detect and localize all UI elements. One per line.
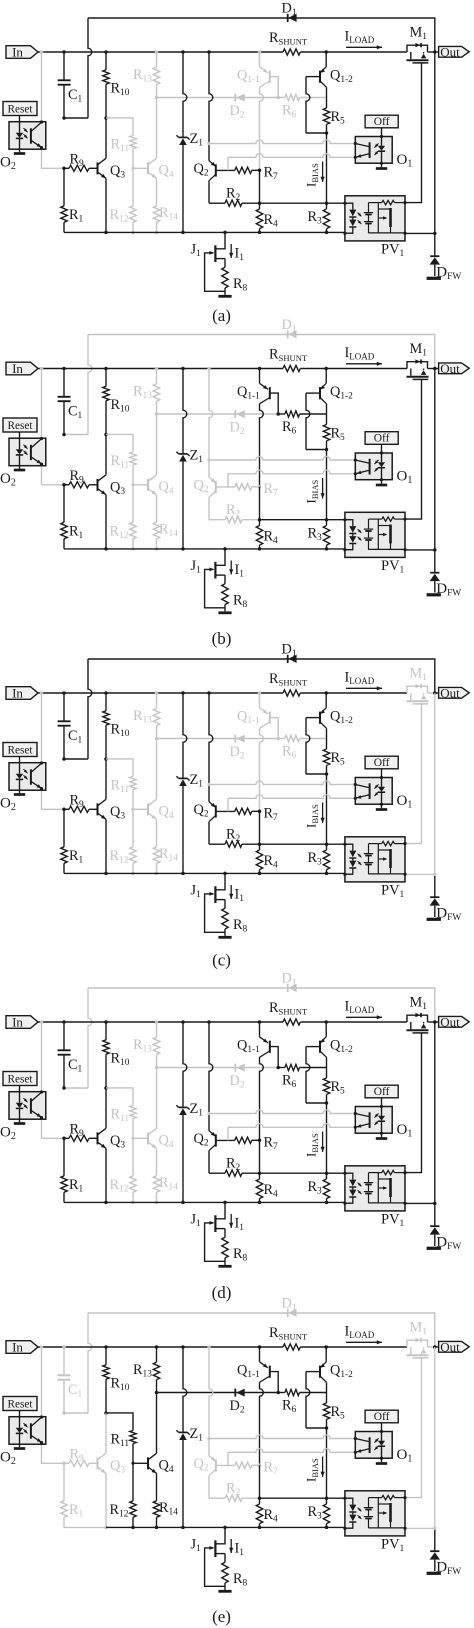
wire bootstrap vertical x88 bbox=[88, 18, 92, 118]
wire O1 emitter line bbox=[228, 1449, 355, 1453]
ground D_FW bbox=[427, 1247, 441, 1250]
resistor R13 bbox=[155, 367, 159, 371]
svg-text:R1: R1 bbox=[69, 524, 84, 542]
wire bias column bbox=[326, 133, 328, 203]
svg-text:R7: R7 bbox=[264, 1460, 279, 1478]
resistor R8 bbox=[224, 1229, 226, 1238]
resistor R1 bbox=[63, 1463, 65, 1501]
svg-text:R12: R12 bbox=[110, 1177, 129, 1195]
current arrow I1 bbox=[230, 885, 232, 899]
resistor R2 bbox=[208, 497, 210, 520]
sub-figure (b) bbox=[0, 317, 469, 648]
current arrow I_LOAD bbox=[346, 363, 382, 365]
wire bias crossbar left bbox=[157, 413, 279, 415]
svg-text:O1: O1 bbox=[397, 793, 413, 811]
resistor R1 bbox=[63, 485, 65, 523]
diode D2 bbox=[234, 410, 236, 418]
svg-text:Q4: Q4 bbox=[159, 804, 174, 822]
svg-text:Q1-2: Q1-2 bbox=[330, 1363, 353, 1381]
wire O1 emitter line bbox=[228, 470, 355, 474]
current arrow I_BIAS bbox=[304, 163, 321, 187]
svg-text:Out: Out bbox=[440, 685, 460, 700]
resistor R7 bbox=[235, 484, 252, 490]
wire Out column bbox=[434, 1022, 436, 1203]
opto-coupler O2 bbox=[9, 122, 46, 150]
wire top rail bbox=[88, 18, 435, 52]
transistor Q3 bbox=[97, 1457, 99, 1469]
node Q1-2 base tie bbox=[325, 772, 329, 776]
resistor R3 bbox=[326, 520, 328, 526]
svg-text:R9: R9 bbox=[70, 793, 85, 811]
resistor R10 bbox=[104, 691, 108, 695]
svg-text:D1: D1 bbox=[282, 971, 297, 989]
svg-text:Out: Out bbox=[440, 44, 460, 59]
svg-text:R9: R9 bbox=[70, 152, 85, 170]
svg-text:R5: R5 bbox=[331, 1079, 346, 1097]
svg-text:R4: R4 bbox=[264, 529, 279, 547]
node In terminal tag bbox=[6, 46, 38, 59]
wire Reset to O2 LED bbox=[19, 116, 21, 122]
svg-text:R12: R12 bbox=[110, 1502, 129, 1520]
wire M1 gate drive bbox=[405, 704, 422, 844]
wire R7 node down bbox=[259, 811, 261, 844]
svg-text:R6: R6 bbox=[282, 744, 297, 762]
current arrow I_BIAS bbox=[304, 480, 321, 504]
wire PV1 output return bbox=[405, 1202, 435, 1204]
transistor M1 pass MOSFET bbox=[407, 362, 428, 369]
svg-text:ILOAD: ILOAD bbox=[345, 670, 375, 687]
svg-text:R7: R7 bbox=[264, 806, 279, 824]
resistor R6 bbox=[278, 1067, 285, 1069]
svg-text:I1: I1 bbox=[235, 1541, 245, 1559]
transistor Q4 bbox=[131, 483, 134, 486]
wire In rail right of shunt bbox=[300, 51, 407, 53]
current arrow I1 bbox=[230, 1214, 232, 1228]
wire O2 emitter to R9 node bbox=[42, 1444, 65, 1463]
opto PV1 photovoltaic driver bbox=[345, 512, 405, 557]
svg-text:R9: R9 bbox=[70, 1122, 85, 1140]
opto PV1 photovoltaic driver bbox=[345, 1491, 405, 1536]
opto-coupler O2 bbox=[9, 1417, 46, 1445]
wire O1 emitter line bbox=[228, 154, 355, 158]
node junction C1 top bbox=[62, 1345, 66, 1349]
opto-coupler O2 bbox=[9, 1092, 46, 1120]
current arrow I_BIAS bbox=[304, 1458, 321, 1482]
resistor R12 bbox=[132, 1463, 134, 1501]
svg-text:Q1-1: Q1-1 bbox=[237, 709, 260, 727]
wire M1 gate drive bbox=[405, 63, 422, 203]
svg-text:Reset: Reset bbox=[7, 744, 33, 756]
opto-coupler O1 bbox=[381, 1423, 383, 1432]
svg-text:Q3: Q3 bbox=[110, 1458, 125, 1476]
wire bottom rail bbox=[106, 548, 345, 550]
svg-text:Off: Off bbox=[374, 757, 390, 769]
svg-text:Q3: Q3 bbox=[110, 804, 125, 822]
sub-figure (e) bbox=[0, 1296, 469, 1627]
zener diode Z1 bbox=[181, 1345, 185, 1349]
svg-text:Z1: Z1 bbox=[190, 448, 204, 466]
node Off terminal box bbox=[365, 1410, 398, 1423]
svg-text:J1: J1 bbox=[191, 1212, 202, 1230]
current arrow I_LOAD bbox=[346, 46, 382, 48]
transistor Q1-1 bbox=[258, 50, 262, 54]
svg-text:R4: R4 bbox=[264, 1507, 279, 1525]
svg-text:I1: I1 bbox=[235, 887, 245, 905]
opto PV1 photovoltaic driver bbox=[345, 196, 405, 241]
svg-text:IBIAS: IBIAS bbox=[304, 163, 321, 187]
svg-text:R11: R11 bbox=[111, 1432, 130, 1450]
transistor Q4 bbox=[131, 1462, 134, 1465]
node Q1-1 base junction bbox=[276, 96, 280, 100]
wire Q3 collector bbox=[105, 1088, 107, 1128]
resistor R_SHUNT bbox=[283, 1019, 300, 1025]
svg-text:R10: R10 bbox=[111, 397, 130, 415]
wire PV1 output return bbox=[405, 1527, 435, 1529]
wire M1 gate drive bbox=[405, 379, 422, 519]
resistor R7 bbox=[235, 808, 252, 814]
node Q1-1 base junction bbox=[276, 737, 280, 741]
transistor Q3 bbox=[97, 162, 99, 174]
wire bootstrap vertical x88 bbox=[88, 335, 92, 435]
node Out terminal tag bbox=[433, 50, 437, 54]
svg-text:Reset: Reset bbox=[7, 1398, 33, 1410]
svg-text:R6: R6 bbox=[282, 103, 297, 121]
svg-text:ILOAD: ILOAD bbox=[345, 29, 375, 46]
capacitor C1 bbox=[63, 52, 65, 80]
svg-text:R2: R2 bbox=[226, 827, 241, 845]
svg-text:R12: R12 bbox=[110, 207, 129, 225]
resistor R_SHUNT bbox=[283, 49, 300, 55]
svg-text:R3: R3 bbox=[308, 526, 323, 544]
svg-text:R12: R12 bbox=[110, 524, 129, 542]
svg-text:Q1-1: Q1-1 bbox=[237, 68, 260, 86]
resistor R2 bbox=[208, 1151, 210, 1174]
wire bottom rail bbox=[106, 872, 345, 874]
svg-text:R3: R3 bbox=[308, 1179, 323, 1197]
wire M1 gate drive bbox=[405, 1358, 422, 1498]
svg-text:J1: J1 bbox=[191, 558, 202, 576]
svg-text:R7: R7 bbox=[264, 481, 279, 499]
wire In rail right of shunt bbox=[300, 1346, 407, 1348]
svg-text:R11: R11 bbox=[111, 453, 130, 471]
wire Q3 collector bbox=[105, 118, 107, 158]
wire O2 collector to In rail bbox=[40, 50, 44, 54]
svg-text:PV1: PV1 bbox=[381, 1537, 405, 1555]
wire In rail left of shunt bbox=[38, 1346, 283, 1348]
svg-text:Q1-1: Q1-1 bbox=[237, 384, 260, 402]
svg-text:Q2: Q2 bbox=[194, 161, 209, 179]
svg-text:R14: R14 bbox=[159, 522, 178, 540]
svg-text:J1: J1 bbox=[191, 242, 202, 260]
wire O2 emitter to R9 node bbox=[42, 1119, 65, 1138]
svg-text:R8: R8 bbox=[233, 593, 248, 611]
node R7 junction bbox=[258, 1138, 262, 1142]
wire Reset to O2 LED bbox=[19, 1086, 21, 1092]
wire C1 bottom to bootstrap bbox=[64, 1087, 88, 1089]
wire Q3 emitter bbox=[105, 178, 107, 232]
node Reset terminal box bbox=[3, 418, 37, 432]
node junction C1 bottom bbox=[62, 1411, 66, 1415]
svg-text:R10: R10 bbox=[111, 1051, 130, 1069]
transistor Q2 bbox=[207, 1345, 211, 1349]
node Reset terminal box bbox=[3, 102, 37, 116]
svg-text:R8: R8 bbox=[233, 917, 248, 935]
svg-text:O1: O1 bbox=[397, 469, 413, 487]
svg-text:R1: R1 bbox=[69, 207, 84, 225]
wire top rail bbox=[88, 1313, 435, 1347]
svg-text:Q2: Q2 bbox=[194, 802, 209, 820]
opto-coupler O1 bbox=[381, 128, 383, 137]
wire O1 collector line bbox=[207, 1112, 210, 1115]
svg-text:M1: M1 bbox=[410, 666, 428, 684]
wire Q3 collector bbox=[105, 759, 107, 799]
svg-text:Off: Off bbox=[374, 433, 390, 445]
transistor Q3 bbox=[97, 803, 99, 815]
transistor J1 current source bbox=[223, 1526, 227, 1530]
svg-text:Reset: Reset bbox=[7, 420, 33, 432]
node R7 junction bbox=[258, 485, 262, 489]
opto PV1 photovoltaic driver bbox=[345, 1166, 405, 1211]
wire bias crossbar left bbox=[157, 738, 279, 740]
ground J1 bbox=[218, 1590, 231, 1593]
resistor R2 bbox=[208, 1476, 210, 1499]
wire Q1-1 collector bbox=[260, 1057, 264, 1140]
svg-text:R13: R13 bbox=[133, 708, 152, 726]
resistor R14 bbox=[156, 495, 158, 523]
ground O2 LED bbox=[14, 1447, 25, 1450]
wire Q4 collector bbox=[156, 98, 158, 159]
transistor M1 pass MOSFET bbox=[407, 45, 428, 52]
svg-text:In: In bbox=[12, 361, 23, 376]
node Reset terminal box bbox=[3, 1072, 37, 1086]
node junction C1 top bbox=[62, 50, 66, 54]
transistor J1 current source bbox=[223, 1201, 227, 1205]
wire In rail right of shunt bbox=[300, 368, 407, 370]
node Off terminal box bbox=[365, 432, 398, 445]
ground O2 LED bbox=[14, 1122, 25, 1125]
wire bias bottom bus bbox=[260, 1497, 345, 1499]
wire bias crossbar left bbox=[157, 97, 279, 99]
wire O1 collector line bbox=[207, 458, 210, 461]
zener diode Z1 bbox=[181, 50, 185, 54]
wire bias bottom bus bbox=[260, 202, 345, 204]
wire PV1 output return bbox=[405, 873, 435, 875]
resistor R9 bbox=[62, 167, 66, 171]
opto PV1 photovoltaic driver bbox=[345, 837, 405, 882]
svg-text:In: In bbox=[12, 685, 23, 700]
svg-text:R14: R14 bbox=[159, 205, 178, 223]
resistor R13 bbox=[155, 691, 159, 695]
svg-text:R8: R8 bbox=[233, 276, 248, 294]
transistor J1 current source bbox=[223, 231, 227, 235]
svg-text:R5: R5 bbox=[331, 1404, 346, 1422]
resistor R5 bbox=[326, 728, 328, 749]
svg-text:R13: R13 bbox=[133, 384, 152, 402]
ground J1 bbox=[218, 936, 231, 939]
current arrow I_LOAD bbox=[346, 687, 382, 689]
svg-text:Q2: Q2 bbox=[194, 1456, 209, 1474]
transistor Q1-2 bbox=[324, 50, 328, 54]
node In terminal tag bbox=[6, 362, 38, 375]
node Q1-2 base tie bbox=[325, 1426, 329, 1430]
svg-text:O2: O2 bbox=[0, 1450, 16, 1468]
svg-text:R13: R13 bbox=[133, 1362, 152, 1380]
transistor Q1-1 bbox=[258, 367, 262, 371]
node R7 junction bbox=[258, 1463, 262, 1467]
node R13 bottom bbox=[155, 1066, 159, 1070]
svg-text:R10: R10 bbox=[111, 722, 130, 740]
wire Reset to O2 LED bbox=[19, 757, 21, 763]
resistor R4 bbox=[259, 1173, 261, 1179]
resistor R4 bbox=[259, 844, 261, 850]
svg-text:O1: O1 bbox=[397, 152, 413, 170]
resistor R10 bbox=[104, 50, 108, 54]
svg-text:O1: O1 bbox=[397, 1447, 413, 1465]
ground O1 LED bbox=[376, 808, 387, 811]
current arrow I_LOAD bbox=[346, 1341, 382, 1343]
node Q1-1 base junction bbox=[276, 1066, 280, 1070]
wire bootstrap vertical x88 bbox=[88, 988, 92, 1088]
wire Q1-1 collector bbox=[260, 404, 264, 487]
resistor R9 bbox=[62, 1137, 66, 1141]
svg-text:R2: R2 bbox=[226, 186, 241, 204]
resistor R14 bbox=[156, 1473, 158, 1501]
diode D_FW freewheel bbox=[434, 552, 436, 573]
current arrow I1 bbox=[230, 244, 232, 258]
resistor R11 bbox=[106, 118, 133, 135]
svg-text:R5: R5 bbox=[331, 426, 346, 444]
resistor R14 bbox=[156, 819, 158, 847]
ground J1 bbox=[218, 1265, 231, 1268]
ground O2 LED bbox=[14, 469, 25, 472]
svg-text:Q1-1: Q1-1 bbox=[237, 1363, 260, 1381]
resistor R1 bbox=[63, 809, 65, 847]
svg-text:M1: M1 bbox=[410, 1320, 428, 1338]
ground J1 bbox=[218, 611, 231, 614]
svg-text:DFW: DFW bbox=[436, 906, 461, 924]
svg-text:R3: R3 bbox=[308, 850, 323, 868]
svg-text:D2: D2 bbox=[230, 1398, 245, 1416]
ground O2 LED bbox=[14, 793, 25, 796]
transistor Q1-1 bbox=[258, 1020, 262, 1024]
resistor R9 bbox=[62, 483, 66, 487]
wire Q3 emitter bbox=[105, 1473, 107, 1527]
sub-figure (a) bbox=[0, 1, 469, 326]
wire bottom rail left end bbox=[64, 1201, 106, 1203]
svg-text:R7: R7 bbox=[264, 1135, 279, 1153]
wire bottom rail left end bbox=[64, 231, 106, 233]
wire top rail bbox=[88, 659, 435, 693]
zener diode Z1 bbox=[181, 1020, 185, 1024]
diode D1 bbox=[287, 330, 289, 338]
svg-text:In: In bbox=[12, 44, 23, 59]
resistor R12 bbox=[132, 1138, 134, 1176]
svg-text:R1: R1 bbox=[69, 1177, 84, 1195]
resistor R14 bbox=[156, 178, 158, 206]
svg-text:C1: C1 bbox=[68, 1057, 83, 1075]
svg-text:Q4: Q4 bbox=[159, 1458, 174, 1476]
transistor Q1-2 bbox=[324, 1345, 328, 1349]
transistor J1 current source bbox=[223, 872, 227, 876]
svg-text:D1: D1 bbox=[282, 642, 297, 660]
svg-text:R11: R11 bbox=[111, 778, 130, 796]
wire Q1-1 collector bbox=[260, 87, 264, 170]
resistor R3 bbox=[326, 1173, 328, 1179]
svg-text:R2: R2 bbox=[226, 502, 241, 520]
svg-text:R14: R14 bbox=[159, 1175, 178, 1193]
svg-text:IBIAS: IBIAS bbox=[304, 1133, 321, 1157]
wire bias column bbox=[326, 1428, 328, 1498]
current arrow I_LOAD bbox=[346, 1016, 382, 1018]
resistor R13 bbox=[155, 1020, 159, 1024]
resistor R10 bbox=[104, 367, 108, 371]
svg-text:Q2: Q2 bbox=[194, 478, 209, 496]
ground D_FW bbox=[427, 593, 441, 596]
svg-text:Q2: Q2 bbox=[194, 1131, 209, 1149]
wire bootstrap vertical x88 bbox=[88, 1313, 92, 1413]
wire O2 emitter to R9 node bbox=[42, 790, 65, 809]
node R13 bottom bbox=[155, 412, 159, 416]
svg-text:RSHUNT: RSHUNT bbox=[269, 1000, 308, 1017]
node In terminal tag bbox=[6, 1341, 38, 1354]
resistor R7 bbox=[235, 1137, 252, 1143]
node Q1-2 base tie bbox=[325, 131, 329, 135]
svg-text:M1: M1 bbox=[410, 995, 428, 1013]
svg-text:R3: R3 bbox=[308, 1504, 323, 1522]
transistor Q1-1 bbox=[258, 1345, 262, 1349]
svg-text:(d): (d) bbox=[212, 1283, 232, 1302]
resistor R13 bbox=[155, 1345, 159, 1349]
node R13 bottom bbox=[155, 737, 159, 741]
wire bottom rail bbox=[106, 1201, 345, 1203]
wire Q3 emitter bbox=[105, 1148, 107, 1202]
ground O1 LED bbox=[376, 1462, 387, 1465]
svg-text:R13: R13 bbox=[133, 1037, 152, 1055]
svg-text:DFW: DFW bbox=[436, 1235, 461, 1253]
node Reset terminal box bbox=[3, 1397, 37, 1411]
wire In rail left of shunt bbox=[38, 368, 283, 370]
node R13 bottom bbox=[155, 96, 159, 100]
svg-text:R1: R1 bbox=[69, 1502, 84, 1520]
resistor R9 bbox=[62, 808, 66, 812]
svg-text:Q1-2: Q1-2 bbox=[330, 384, 353, 402]
svg-text:DFW: DFW bbox=[436, 265, 461, 283]
svg-text:Q4: Q4 bbox=[159, 479, 174, 497]
wire Q4 collector bbox=[156, 739, 158, 800]
svg-text:R3: R3 bbox=[308, 209, 323, 227]
svg-text:O2: O2 bbox=[0, 796, 16, 814]
svg-text:D1: D1 bbox=[282, 1296, 297, 1314]
node junction C1 bottom bbox=[62, 433, 66, 437]
transistor M1 pass MOSFET bbox=[407, 686, 428, 693]
transistor Q2 bbox=[207, 1020, 211, 1024]
ground D_FW bbox=[427, 918, 441, 921]
node Q1-2 base tie bbox=[325, 1101, 329, 1105]
resistor R5 bbox=[326, 404, 328, 425]
node Out terminal tag bbox=[433, 691, 437, 695]
svg-text:ILOAD: ILOAD bbox=[345, 999, 375, 1016]
resistor R11 bbox=[106, 1088, 133, 1106]
svg-text:Off: Off bbox=[374, 1411, 390, 1423]
svg-text:R6: R6 bbox=[282, 1073, 297, 1091]
wire Out column bbox=[434, 1347, 436, 1528]
node junction C1 top bbox=[62, 1020, 66, 1024]
resistor R11 bbox=[106, 759, 133, 777]
svg-text:PV1: PV1 bbox=[381, 883, 405, 901]
svg-text:R7: R7 bbox=[264, 165, 279, 183]
svg-text:R4: R4 bbox=[264, 853, 279, 871]
resistor R2 bbox=[208, 181, 210, 204]
